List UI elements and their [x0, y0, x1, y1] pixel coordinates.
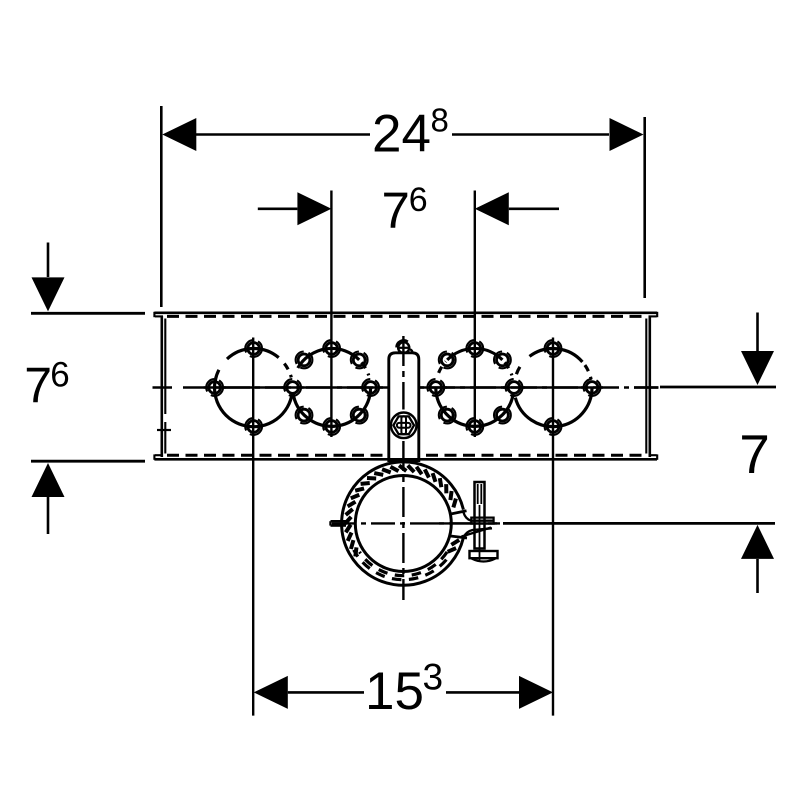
svg-text:6: 6 — [409, 181, 428, 219]
svg-text:15: 15 — [365, 662, 424, 721]
svg-text:7: 7 — [739, 423, 770, 485]
svg-text:7: 7 — [24, 358, 52, 414]
svg-text:24: 24 — [372, 105, 431, 164]
svg-text:3: 3 — [423, 657, 444, 698]
svg-text:7: 7 — [382, 182, 410, 239]
svg-text:8: 8 — [431, 102, 449, 139]
svg-text:6: 6 — [50, 356, 69, 395]
